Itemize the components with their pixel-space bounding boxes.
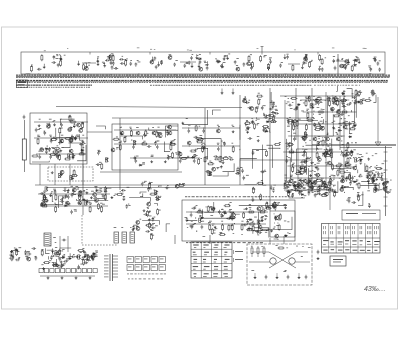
svg-text:43‰…: 43‰… xyxy=(364,286,386,293)
